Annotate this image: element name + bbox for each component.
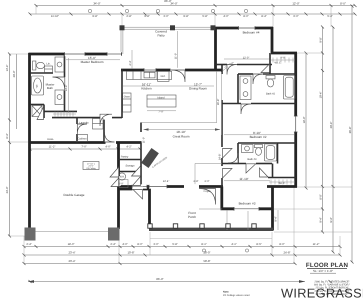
wic bottom rod [269, 181, 295, 183]
wall: porch west / storage east [148, 188, 151, 228]
door: shower [37, 107, 44, 120]
dimension labels bottom row A [26, 243, 319, 246]
dimension labels bottom row B [68, 251, 290, 255]
svg-text:8'-0": 8'-0" [320, 194, 323, 199]
door gap: patio door [171, 68, 186, 72]
note bottom center [223, 291, 250, 297]
svg-text:Bath #3: Bath #3 [248, 158, 257, 161]
window: bedroom3 south [234, 207, 259, 211]
door: patio [171, 70, 185, 82]
dim line bottom C [24, 263, 295, 265]
line: bedroom3 dim [224, 180, 270, 182]
ROOM LABELS [64, 30, 267, 219]
door: master bath [53, 77, 65, 91]
door gap: garage to hall [106, 140, 117, 144]
svg-text:8'-1": 8'-1" [201, 243, 206, 246]
door gap: storage exterior door [133, 187, 144, 192]
svg-text:58'-8": 58'-8" [203, 259, 210, 263]
svg-text:Cabinet: Cabinet [78, 138, 87, 141]
svg-text:Bath #2: Bath #2 [266, 93, 275, 96]
door: wic top [261, 64, 270, 73]
svg-text:Bedroom #2: Bedroom #2 [250, 135, 267, 139]
thin floor/break lines [35, 27, 294, 238]
wall: master closet north [44, 110, 77, 112]
shower: master [32, 106, 42, 117]
window: master bedroom W2 [107, 52, 122, 56]
window: bedroom4 north [239, 26, 256, 30]
svg-text:34'-0": 34'-0" [93, 2, 100, 6]
line: garage door [35, 231, 109, 233]
svg-text:9'0 Ceiling: 9'0 Ceiling [86, 167, 95, 170]
door: storage exterior [133, 190, 143, 200]
wall: bedroom3 south exterior [221, 207, 274, 210]
window: great room south 2 [149, 184, 167, 188]
step: garage side entry landing [120, 180, 129, 188]
wall: bath3 west [237, 143, 239, 164]
line: porch step edge [150, 238, 272, 240]
line: patio east door swing [223, 63, 234, 71]
door: bedroom4 [227, 65, 237, 75]
line: bedroom2 dim [224, 134, 294, 136]
svg-text:24'-0": 24'-0" [6, 187, 9, 194]
svg-text:Bath: Bath [47, 86, 53, 90]
tick marks top dims [29, 4, 357, 16]
wall: bedroom4 east [271, 27, 274, 53]
DOOR SWINGS [37, 64, 270, 205]
line: foyer north [195, 163, 222, 165]
svg-text:Double Garage: Double Garage [64, 193, 85, 197]
svg-text:SL: 1/4" = 1'-0": SL: 1/4" = 1'-0" [313, 269, 333, 273]
wall: wic bump south [267, 185, 297, 188]
svg-text:11'-2": 11'-2" [49, 146, 56, 149]
linen: master [45, 66, 53, 73]
dim line top overall [36, 5, 355, 7]
post: porch 3 [200, 224, 204, 228]
svg-text:16'-8": 16'-8" [217, 99, 220, 106]
door: front entry [199, 189, 216, 205]
svg-text:4'-2": 4'-2" [126, 146, 131, 149]
svg-text:Island: Island [158, 96, 165, 99]
wall: bedroom4 north [214, 27, 273, 30]
svg-text:8'-0": 8'-0" [279, 243, 284, 246]
svg-text:9'-4": 9'-4" [330, 217, 333, 222]
svg-text:8'-0": 8'-0" [118, 183, 123, 186]
svg-text:8'-0": 8'-0" [340, 2, 346, 6]
svg-text:28'-0": 28'-0" [203, 251, 210, 255]
svg-text:18'-0": 18'-0" [68, 243, 75, 246]
wic top rod [271, 59, 295, 61]
svg-text:6'-0": 6'-0" [293, 15, 298, 18]
wall: wic top west [269, 53, 271, 74]
door: bedroom3 from hall [223, 169, 233, 179]
svg-text:W.H.: W.H. [119, 176, 125, 179]
svg-text:14'-4": 14'-4" [65, 85, 68, 92]
cabinet: hall [77, 135, 88, 142]
svg-text:3'-0": 3'-0" [163, 15, 168, 18]
svg-text:86'-0": 86'-0" [164, 0, 171, 3]
wall: bedroom3/porch east exterior [271, 187, 274, 231]
svg-text:23'-4": 23'-4" [68, 251, 75, 255]
line: kitchen/great room break [141, 122, 217, 124]
island [147, 95, 176, 107]
svg-text:5'-4": 5'-4" [327, 15, 332, 18]
svg-text:9'-8": 9'-8" [280, 56, 285, 59]
toilet: bath3 [255, 145, 263, 148]
pier: garage left [25, 228, 36, 241]
svg-text:Laundry: Laundry [79, 122, 89, 125]
dimension labels right rotated [275, 37, 353, 222]
dimension labels top row2 [51, 15, 333, 18]
svg-text:2'-4": 2'-4" [26, 243, 31, 246]
wall: wic bottom north [268, 177, 296, 179]
wall: east exterior [294, 53, 297, 188]
line: dining/hall boundary [216, 71, 218, 123]
window: east wall bedroom2 [294, 116, 298, 132]
svg-text:23'-4": 23'-4" [68, 259, 75, 263]
water heater [118, 173, 125, 180]
door: garage to hall [105, 132, 115, 142]
post: porch 5 [252, 224, 256, 228]
wall: bath3 east [277, 143, 279, 164]
wall: master bath partitions [30, 72, 53, 74]
svg-text:4'-0": 4'-0" [223, 15, 228, 18]
dim line bottom D overall [28, 281, 305, 283]
dimension labels bottom row C [68, 259, 210, 263]
vanity: hall bath [240, 76, 251, 100]
door: bath3 [228, 153, 238, 163]
FIXTURES [32, 57, 296, 188]
closet rod: master [53, 113, 76, 115]
toilet: hall bath [266, 76, 275, 79]
WALLS [29, 27, 298, 231]
dim line bottom A [24, 246, 340, 248]
wall: bedroom wing west [214, 28, 217, 71]
svg-text:8'-5": 8'-5" [256, 243, 261, 246]
svg-text:3'-0": 3'-0" [153, 243, 158, 246]
svg-text:36'-8": 36'-8" [349, 127, 352, 134]
line: patio dim 11'-0 [177, 31, 179, 68]
arrowheads great room dim [144, 128, 221, 130]
dim line left inner [16, 54, 18, 129]
door: laundry [77, 124, 87, 134]
svg-text:7'-0": 7'-0" [158, 110, 163, 113]
door: master bedroom [100, 114, 112, 126]
edge: covered patio west [120, 27, 122, 54]
svg-text:18'-0": 18'-0" [303, 117, 306, 124]
line: bedroom4 dim [224, 58, 269, 60]
svg-text:Dining Room: Dining Room [189, 86, 207, 90]
porch posts [148, 224, 256, 228]
svg-text:2'-8": 2'-8" [193, 180, 198, 183]
wall: storage west / garage east [117, 143, 120, 230]
refrigerator [158, 71, 170, 81]
line: great room dim [144, 129, 221, 131]
svg-text:5'-8": 5'-8" [202, 15, 207, 18]
wall: storage south [118, 188, 151, 191]
tick marks bottom dims [23, 245, 342, 283]
dim line top subdivisions [30, 13, 355, 15]
line: patio dim 4'-4 [131, 50, 133, 69]
svg-text:13'-4": 13'-4" [6, 65, 9, 72]
svg-text:3'-0": 3'-0" [204, 180, 209, 183]
svg-text:13'-4": 13'-4" [163, 180, 170, 183]
svg-text:Bedroom #3: Bedroom #3 [239, 201, 256, 205]
dim line hall interior [30, 148, 140, 150]
toilet: master WC [33, 61, 36, 70]
svg-text:9'-4": 9'-4" [275, 216, 278, 221]
pier: garage right [108, 228, 120, 241]
line: master bedroom dim [66, 59, 120, 61]
svg-text:Oven: Oven [124, 96, 131, 99]
svg-text:Great Room: Great Room [173, 135, 190, 139]
svg-text:HALL: HALL [47, 138, 54, 141]
svg-text:9'0 Ceilings unless noted: 9'0 Ceilings unless noted [223, 294, 250, 297]
wall: bedroom2 south / bath3 north [238, 142, 296, 144]
post: porch 2 [173, 224, 177, 228]
wall: bedroom2 north [222, 103, 241, 105]
dim line right r4 [351, 6, 353, 262]
kitchen counter run [127, 71, 172, 79]
WINDOWS (white gap + glazing lines) [65, 26, 298, 211]
tub: hall bath [284, 76, 296, 100]
dim line right r1 [305, 53, 307, 188]
tub: master [32, 76, 44, 95]
door gap: garage side entry [116, 176, 120, 186]
svg-text:14'-8": 14'-8" [219, 154, 222, 161]
fireplace [141, 148, 159, 168]
svg-text:Porch: Porch [188, 215, 196, 219]
post: porch 4 [226, 224, 230, 228]
wall: hall bath north [238, 73, 253, 75]
dim line right r2 [322, 27, 324, 232]
vanity: bath3 [242, 145, 254, 153]
post: patio column west [120, 25, 125, 30]
svg-text:Foyer: Foyer [204, 190, 211, 193]
line: porch roof lines [226, 210, 228, 230]
door: hall bath [253, 74, 263, 84]
line: foyer west [194, 164, 196, 187]
svg-text:86'-0": 86'-0" [156, 277, 163, 281]
svg-text:12'-0": 12'-0" [292, 2, 299, 6]
wall: pantry strip east [140, 143, 142, 188]
svg-text:5'-8": 5'-8" [172, 243, 177, 246]
line: foyer vestibule south [199, 208, 222, 210]
vanity: master 1 [55, 57, 64, 72]
svg-text:WIREGRASSMLS: WIREGRASSMLS [281, 285, 363, 300]
svg-text:9'-8": 9'-8" [320, 37, 323, 42]
dim line bottom B [24, 254, 340, 256]
dim line right r3 [332, 27, 334, 252]
svg-text:Master Bedroom: Master Bedroom [81, 60, 104, 64]
line: kitchen dining dim [123, 85, 214, 87]
svg-text:Bedroom #4: Bedroom #4 [243, 31, 260, 35]
wall: bedroom3 east closet [272, 164, 274, 179]
tub: bath3 [265, 144, 277, 161]
dim line left outer [9, 54, 11, 236]
svg-text:Lin.: Lin. [46, 63, 50, 66]
door gap: master bedroom [100, 116, 112, 120]
svg-text:9'-8": 9'-8" [183, 15, 188, 18]
door gap: front door [184, 184, 199, 189]
TITLE BLOCK [306, 262, 350, 296]
svg-text:2'-4": 2'-4" [110, 243, 115, 246]
wall: garage north / hall south [29, 141, 142, 144]
window: great room south [132, 184, 147, 188]
kitchen sink [144, 72, 155, 78]
svg-text:W.I.C.: W.I.C. [278, 182, 285, 185]
window schedule circles on top dim line [88, 9, 247, 12]
wall: bedroom wing hall west (bedroom4 south) [216, 64, 228, 66]
wall: laundry east [103, 118, 105, 143]
svg-text:Storage: Storage [125, 165, 135, 168]
marker circle bottom [245, 249, 248, 252]
wall: bedroom wing west partition [221, 65, 223, 75]
door: pantry pair [132, 166, 141, 176]
dimension labels top row1 [93, 0, 346, 6]
svg-text:4'-4": 4'-4" [129, 60, 132, 65]
line: dining dim [221, 72, 223, 135]
wall: patio south / kitchen north [121, 69, 223, 72]
vanity: master 2 [55, 90, 64, 105]
line: master bedroom depth dim [68, 58, 70, 113]
wall: laundry west [76, 118, 78, 124]
washer dryer [93, 119, 104, 130]
svg-text:8'-4": 8'-4" [6, 133, 9, 138]
wall: hall bath west [237, 74, 239, 103]
svg-text:Patio: Patio [157, 33, 164, 37]
svg-text:8'-0": 8'-0" [137, 243, 142, 246]
wall: master bedroom north [29, 53, 123, 56]
svg-text:9'-8": 9'-8" [92, 15, 97, 18]
wall: kitchen west [121, 69, 123, 118]
line: porch dim [277, 210, 279, 230]
wall: pantry divider 1 [118, 159, 141, 161]
window: master bedroom W1 [65, 52, 86, 56]
kitchen counter column [123, 93, 131, 112]
wall: garage west exterior [28, 53, 31, 229]
door: wic bottom [260, 168, 269, 177]
garage note box [83, 162, 99, 170]
line: island dim [147, 110, 176, 112]
svg-text:4'-1": 4'-1" [231, 243, 236, 246]
wall: house south (great room / foyer) [118, 185, 224, 188]
dimension labels left rotated [6, 65, 16, 194]
svg-text:11'-2": 11'-2" [313, 243, 320, 246]
edge: covered patio north [121, 26, 216, 28]
wall: master bedroom south [52, 117, 122, 119]
svg-text:11'-0": 11'-0" [143, 137, 146, 143]
wall: foyer vestibule east [220, 187, 223, 210]
post: patio column mid [170, 25, 175, 30]
svg-text:8'-4": 8'-4" [261, 15, 266, 18]
post: patio column east [211, 25, 216, 30]
svg-text:FLOOR PLAN: FLOOR PLAN [306, 262, 349, 269]
post: porch 1 [148, 224, 152, 228]
svg-text:4'-0": 4'-0" [122, 243, 127, 246]
svg-text:7'-0": 7'-0" [81, 146, 86, 149]
svg-text:9'-8": 9'-8" [144, 15, 149, 18]
svg-text:Pantry: Pantry [121, 156, 129, 159]
dimension labels hall dim [49, 146, 132, 149]
wall: master bath east [64, 54, 66, 77]
svg-text:11'-0": 11'-0" [174, 53, 177, 59]
svg-text:Kitchen: Kitchen [141, 86, 152, 90]
svg-text:9'-4": 9'-4" [320, 217, 323, 222]
svg-text:29'-4": 29'-4" [330, 122, 333, 129]
svg-text:12'-0": 12'-0" [243, 56, 250, 59]
svg-text:10'-8": 10'-8" [127, 251, 134, 255]
svg-text:11'-10": 11'-10" [51, 15, 59, 18]
svg-text:24'-8": 24'-8" [283, 251, 290, 255]
door: bedroom3 pair [246, 164, 256, 173]
wall: porch slab south edge [149, 228, 273, 231]
wall: bath3 south / bedroom3 north [222, 163, 246, 165]
svg-text:29'-0": 29'-0" [13, 71, 16, 78]
door: bedroom2 [241, 104, 251, 114]
svg-text:Ref.: Ref. [161, 75, 166, 78]
door: storage west pair [110, 167, 119, 177]
window: kitchen sink [144, 68, 156, 72]
wall: northeast jog [271, 52, 297, 55]
svg-text:W.I.C.: W.I.C. [274, 61, 281, 64]
svg-text:19'-4": 19'-4" [320, 92, 323, 99]
wall: pantry divider 2 [118, 171, 141, 173]
svg-text:4'-0": 4'-0" [105, 146, 110, 149]
svg-text:8'-0": 8'-0" [243, 15, 248, 18]
arrowheads dim D [28, 280, 305, 283]
svg-text:2'-8": 2'-8" [126, 15, 131, 18]
svg-text:11'-10": 11'-10" [239, 177, 248, 181]
